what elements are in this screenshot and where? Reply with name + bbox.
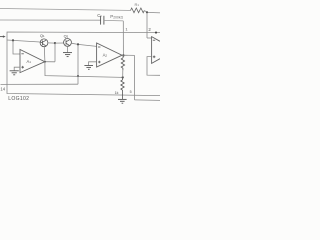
op-amp A1 plus [21, 66, 24, 69]
svg-text:LOG102: LOG102 [8, 96, 29, 102]
wire divider mid stub [122, 70, 124, 77]
ground Q2 [63, 53, 72, 57]
op-amp A3 plus [153, 56, 156, 59]
node divider midpoint [122, 76, 124, 78]
node Q1 base junction [54, 42, 56, 44]
wire Cc drop to A2 output [122, 21, 124, 56]
wire Q1 emitter drop [43, 47, 46, 62]
node A1 output junction [44, 61, 46, 63]
resistor R3 divider bottom [121, 77, 124, 99]
svg-text:14: 14 [0, 86, 5, 91]
wire Cc to corner [104, 19, 123, 22]
svg-text:Q1: Q1 [40, 34, 45, 38]
op-amp A2 [97, 43, 122, 67]
ground divider [118, 99, 127, 103]
wire A1 output to divider midpoint [45, 62, 123, 78]
node on box top edge [155, 31, 157, 33]
wire to A1 inverting input [13, 40, 20, 54]
wire A2 noninverting to ground [89, 62, 97, 65]
wire A1 output [45, 61, 55, 63]
op-amp A3 minus [153, 39, 155, 41]
wire output bottom to right edge [135, 99, 161, 102]
svg-text:2: 2 [148, 27, 151, 32]
LOG102 box outline [7, 32, 160, 96]
svg-text:Q2: Q2 [64, 34, 69, 38]
wire output down [134, 55, 136, 100]
node A2 output [122, 54, 124, 56]
ground A2 [84, 66, 93, 70]
capacitor Cc [101, 16, 104, 25]
wire Q1 base to node [48, 42, 55, 44]
wire A3 noninverting [147, 57, 160, 76]
svg-text:1: 1 [125, 27, 128, 32]
node junction at R1 output [146, 11, 148, 13]
input current arrow [0, 36, 3, 38]
wire Q2 base to ground [67, 46, 69, 52]
wire Q2 collector [55, 42, 64, 44]
svg-text:1k: 1k [115, 91, 119, 95]
svg-text:R1: R1 [135, 2, 140, 7]
op-amp A1 minus [21, 53, 23, 55]
wire Q2 emitter to A2 summing [71, 43, 96, 46]
op-amp A1 [20, 50, 45, 73]
wire A1 noninverting to ground [14, 67, 20, 70]
wire A3 inverting input [147, 37, 152, 39]
resistor R2 divider top [121, 55, 124, 70]
svg-text:5: 5 [130, 90, 132, 94]
op-amp A3 [152, 37, 160, 64]
wire pin2 vertical [146, 12, 148, 38]
node summing junction [12, 39, 14, 41]
wire top feedback rail [0, 9, 131, 11]
transistor Q2 [64, 39, 72, 47]
wire Cc rail [0, 19, 100, 21]
svg-text:A1: A1 [27, 59, 32, 64]
op-amp A2 minus [98, 46, 100, 48]
wire summing node input [7, 40, 40, 42]
ground A1 [10, 71, 19, 75]
transistor Q1 [40, 39, 48, 47]
svg-text:Cc: Cc [97, 13, 102, 18]
wire pin 14 [1, 83, 79, 85]
node A2 summing dot [77, 43, 79, 45]
wire pin14 vertical [77, 44, 79, 84]
wire R1 to right edge [144, 11, 160, 13]
svg-text:A2: A2 [103, 53, 108, 58]
resistor R1 [131, 8, 145, 13]
junction blob at crossover [77, 75, 79, 77]
wire A2 output right [122, 54, 135, 56]
op-amp A2 plus [98, 61, 101, 64]
svg-text:P200kΩ: P200kΩ [110, 14, 123, 19]
wire Q1 feedback vertical [54, 43, 56, 62]
